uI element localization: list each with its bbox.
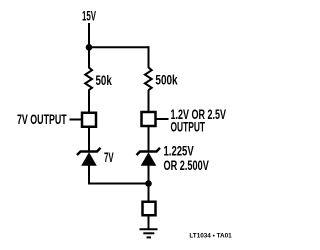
svg-text:OUTPUT: OUTPUT <box>171 119 206 134</box>
wire pin box to zener D2 <box>148 126 150 151</box>
wire resistor R1 to pin box <box>88 90 90 112</box>
wire from 15V down to junction <box>88 23 90 47</box>
zener diode D2 anode triangle <box>141 152 157 166</box>
resistor R2 500k <box>145 67 152 90</box>
wire pin box to zener D1 <box>88 127 90 151</box>
svg-text:15V: 15V <box>82 8 96 23</box>
wire pin box to ground <box>148 216 150 229</box>
wire lead to output label <box>156 118 169 120</box>
ground symbol <box>140 228 158 230</box>
pin box U1 left (7V pin) <box>82 113 96 127</box>
svg-text:500k: 500k <box>155 73 178 88</box>
zener diode D1 anode triangle <box>81 152 97 166</box>
node junction dot at outputs join <box>145 180 152 187</box>
node junction dot at supply split <box>86 44 93 51</box>
svg-text:50k: 50k <box>96 73 113 88</box>
wire lead from 7V OUTPUT label <box>70 119 82 121</box>
wire zener D1 down and right to junction <box>89 165 149 184</box>
resistor R1 50k <box>85 67 92 90</box>
wire right branch vertical drop <box>148 46 150 68</box>
wire right branch resistor R2 to pin box <box>148 90 150 112</box>
wire junction down to resistor R1 <box>88 47 90 68</box>
zener diode D2 cathode bar <box>137 148 161 155</box>
wire zener D2 down through junction to bottom pin box <box>148 165 150 202</box>
svg-text:7V: 7V <box>104 150 114 165</box>
zener diode D1 cathode bar <box>77 148 101 155</box>
pin box U1 bottom (ground pin) <box>143 202 156 216</box>
wire horizontal to right branch <box>89 46 150 48</box>
svg-text:1.225V: 1.225V <box>164 144 194 159</box>
pin box U1 right (1.2V/2.5V pin) <box>142 112 156 126</box>
svg-text:OR 2.500V: OR 2.500V <box>164 158 209 173</box>
svg-text:LT1034 • TA01: LT1034 • TA01 <box>189 232 232 239</box>
svg-text:7V OUTPUT: 7V OUTPUT <box>17 112 67 127</box>
